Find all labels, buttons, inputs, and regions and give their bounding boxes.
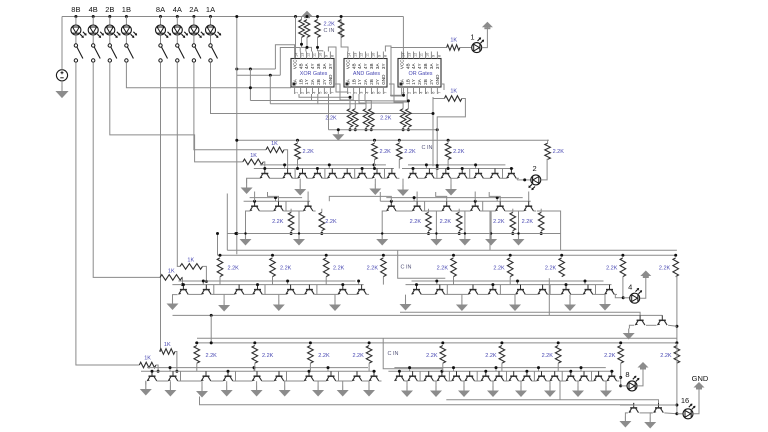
svg-text:4A: 4A: [173, 5, 182, 14]
wire Q4m- emlink2: [434, 380, 438, 382]
wire row2 res0 bot: [290, 231, 292, 234]
resistor 2.2K row4-1: [252, 346, 258, 364]
ground row3 515: [509, 300, 521, 311]
svg-text:1K: 1K: [271, 141, 278, 147]
wire row2 res2 bot: [428, 231, 430, 234]
resistor 2.2K row3-1: [270, 258, 276, 277]
wire q5 mid: [640, 412, 653, 414]
wire Q2- coll last: [313, 210, 316, 212]
svg-text:11: 11: [420, 53, 424, 57]
transistor Q2r-2: [412, 201, 422, 211]
resistor 1K led1: [447, 45, 460, 51]
wire row2 emdrop 382.2: [382, 211, 387, 234]
node row1 res2: [398, 139, 401, 142]
transistor Q1r-7: [507, 169, 517, 179]
wire row1 res2 stub: [398, 140, 400, 143]
wire Q4- coll last: [379, 380, 382, 382]
svg-text:7: 7: [384, 92, 388, 94]
wire Q3- coll riser1: [211, 285, 214, 295]
transistor Q1r-4: [457, 169, 467, 179]
wire row4 gstub 170.4: [169, 381, 171, 385]
svg-text:C IN: C IN: [388, 351, 399, 357]
wire bus 2B: [110, 62, 243, 162]
resistor 2.2K row2-2: [426, 212, 432, 230]
wire ic bottom bus c: [270, 94, 318, 104]
node row2 res3: [458, 232, 461, 235]
node row2 res1: [320, 232, 323, 235]
wire led1 right: [482, 27, 487, 48]
node Q2r-1 base: [390, 200, 393, 203]
wire row4 gstub 256.6: [256, 381, 258, 385]
node pulldown rail end: [436, 128, 439, 131]
wire row3 gstub 515: [514, 295, 516, 300]
svg-text:2B: 2B: [316, 79, 321, 85]
ground row4 521: [515, 386, 527, 397]
wire Q1-8 busjog: [373, 165, 375, 169]
wire Q3-5 busjog: [287, 281, 289, 285]
svg-text:14: 14: [295, 53, 299, 57]
wire Q4- emlink6: [314, 380, 326, 382]
node bundle left: [235, 68, 238, 71]
node Q4m-8 baseA: [495, 366, 498, 369]
wire row4 bottom a: [200, 397, 634, 405]
resistor 2.2K row4-3: [366, 346, 372, 364]
svg-text:3A: 3A: [429, 63, 434, 70]
wire 1B LED feed: [125, 17, 127, 26]
wire Q4m- emlink27: [507, 380, 509, 382]
wire row4 res5 down: [501, 363, 503, 371]
wire 2A LED feed: [193, 17, 195, 26]
wire pullup d2: [341, 37, 348, 51]
wire row3 box top: [227, 249, 677, 251]
transistor Q3-7: [338, 285, 348, 295]
wire row4 gstub 550: [549, 381, 551, 386]
wire Q3r-8 busjog: [584, 281, 586, 285]
ground row4 202: [196, 387, 208, 398]
svg-text:2.2K: 2.2K: [367, 266, 379, 272]
node Q4m-11 baseA: [537, 366, 540, 369]
node pullup b2: [306, 46, 309, 49]
svg-text:1K: 1K: [187, 257, 194, 263]
wire 4A LED feed: [176, 17, 178, 26]
wire Q3r- emlink6: [571, 293, 583, 295]
node bundle b: [269, 74, 272, 77]
wire Q1-5 busjog: [328, 165, 330, 169]
svg-text:1K: 1K: [164, 342, 171, 348]
node row1 res1: [373, 139, 376, 142]
resistor 2.2K row1-1: [372, 143, 378, 159]
node bus e: [407, 99, 410, 102]
resistor 2.2K row4-6: [555, 346, 561, 364]
power arrow top: [302, 11, 313, 18]
wire Q4m- emlink10: [546, 380, 550, 382]
wire Q1r- emlink23: [470, 177, 474, 179]
transistor Q3-8: [357, 285, 367, 295]
wire Q4- coll riser3: [233, 371, 236, 381]
node pullup c2: [316, 46, 319, 49]
svg-text:1Y: 1Y: [304, 79, 309, 85]
wire row4 mid out: [559, 381, 561, 400]
node row2 res5: [540, 232, 543, 235]
resistor 2.2K row3-5: [507, 258, 513, 277]
svg-text:XOR Gates: XOR Gates: [300, 71, 328, 77]
resistor 2.2K row3-0: [217, 258, 223, 277]
wire row2 base8: [528, 192, 530, 202]
wire Q1r- emlink25: [503, 177, 507, 179]
node Q4m-16 base: [610, 370, 613, 373]
wire Q2-2 busjog: [275, 198, 277, 202]
node Q1-8 baseA: [373, 163, 376, 166]
wire xor vcc drop: [295, 17, 297, 59]
wire Q4m- emlink14: [603, 380, 607, 382]
resistor 2.2K pullup c: [315, 20, 321, 38]
node row3 res2: [325, 254, 328, 257]
transistor Q4m-8: [494, 371, 504, 381]
transistor Q3-3: [234, 285, 244, 295]
node Q4m-7 base: [484, 370, 487, 373]
wire Q2r-2 busjog: [413, 198, 415, 202]
wire row4 gstub 493: [492, 381, 494, 386]
svg-text:3: 3: [360, 92, 364, 94]
node row2 g245.5: [244, 232, 246, 234]
transistor Q4m-7: [481, 371, 491, 381]
node pullup d: [340, 15, 343, 18]
wire row2 res5 top: [540, 209, 542, 213]
wire Q4m- base bus A: [394, 367, 605, 369]
resistor 2.2K row3-8: [673, 258, 679, 277]
wire 1A LED feed: [210, 17, 212, 26]
wire Q3r- emlink0: [421, 293, 435, 295]
ground row2 436.4: [430, 235, 442, 246]
wire Q2r-5 busjog: [496, 198, 498, 202]
node row1 res0 base: [296, 167, 299, 170]
LED 4: [630, 288, 642, 303]
resistor 1K row1 upper: [266, 147, 284, 153]
ground row4 436: [430, 386, 442, 397]
wire pullup c1: [317, 17, 319, 20]
switch 2B: [108, 44, 117, 62]
wire Q1r- emlink0: [418, 177, 425, 179]
transistor Q2-2: [274, 201, 284, 211]
ground row3 461.9: [456, 300, 468, 311]
node row3 res1: [271, 254, 274, 257]
svg-text:13: 13: [354, 53, 358, 57]
LED 4A: [172, 25, 188, 38]
wire row3 res7 down: [622, 277, 624, 298]
svg-text:2A: 2A: [189, 5, 198, 14]
svg-text:2.2K: 2.2K: [325, 116, 337, 122]
svg-text:OR Gates: OR Gates: [409, 71, 433, 77]
svg-text:2.2K: 2.2K: [303, 149, 315, 155]
node row2 res2: [427, 232, 430, 235]
wire Q4m-2 busjog: [409, 368, 411, 372]
svg-text:2.2K: 2.2K: [453, 149, 465, 155]
wire Q4m- emlink25: [477, 380, 481, 382]
ground row2 299: [293, 235, 305, 246]
wire Q4m- base bus B: [388, 370, 613, 372]
svg-text:10: 10: [319, 53, 323, 57]
wire or gnd: [441, 84, 444, 90]
wire Q1- emlink2: [307, 177, 312, 179]
svg-text:2.2K: 2.2K: [493, 219, 505, 225]
wire Q1- emlink25: [355, 177, 358, 179]
transistor Q1-4: [313, 169, 323, 179]
ground row2 382.2: [376, 235, 388, 246]
wire Q2- coll riser1: [283, 201, 286, 211]
wire 8B LED feed: [75, 17, 77, 26]
ground row3 335: [329, 300, 341, 311]
wire Q4- emlink4: [262, 380, 274, 382]
node row2 res0: [290, 232, 293, 235]
wire pulldown 0b bot: [354, 127, 356, 130]
svg-text:2.2K: 2.2K: [659, 266, 671, 272]
wire row4 1K lower out: [156, 365, 158, 371]
svg-text:VCC: VCC: [345, 59, 350, 69]
wire pulldown rail: [329, 129, 438, 131]
transistor Q1r-6: [490, 169, 500, 179]
switch 1B: [125, 44, 134, 62]
node pulldown 2a: [402, 128, 405, 131]
node right rail a: [675, 404, 678, 407]
node row4 res5: [500, 341, 503, 344]
wire xor-and top: [328, 47, 347, 94]
wire Q3- emlink25: [317, 293, 338, 295]
LED 8A: [156, 25, 172, 38]
wire Q1- emlink0: [270, 177, 283, 179]
svg-text:1: 1: [348, 92, 352, 94]
resistor 1K row3 upper: [180, 264, 203, 270]
resistor 2.2K pulldown 1a: [363, 109, 369, 128]
ground q5 a: [619, 417, 631, 428]
wire pulldown 1a bot: [365, 127, 367, 130]
transistor Q2r-3: [442, 201, 452, 211]
node 8A rail junction: [159, 15, 162, 18]
wire led1 left: [460, 47, 472, 49]
node Q3r-7 base: [565, 283, 568, 286]
wire row4 gstub 606: [605, 381, 607, 386]
wire Q3- base bus A: [178, 280, 355, 282]
wire Q1r-5 busjog: [475, 165, 477, 169]
wire row4 bottom b: [446, 400, 658, 403]
node pullup c: [316, 15, 319, 18]
wire row4 1K upper out: [175, 352, 177, 372]
transistor Q3r-4: [488, 285, 498, 295]
svg-text:2.2K: 2.2K: [404, 149, 416, 155]
wire pulldown 0a top: [349, 101, 351, 109]
node pulldown 1a: [365, 128, 368, 131]
wire row3 gstub 172.5: [172, 295, 174, 299]
ground row4 256.6: [251, 386, 263, 397]
svg-text:4Y: 4Y: [363, 63, 368, 69]
svg-text:2.2K: 2.2K: [660, 353, 672, 359]
wire row4 em left: [145, 381, 147, 384]
wire ic bottom bus e: [365, 94, 408, 101]
wire 4B LED feed: [92, 17, 94, 26]
svg-text:1: 1: [295, 92, 299, 94]
wire Q4m- coll riser3: [447, 371, 450, 381]
wire row4 right down: [676, 343, 678, 414]
wire 2B LED to switch: [109, 35, 111, 44]
transistor Q1-3: [298, 169, 308, 179]
wire pulldown 0b top: [354, 101, 356, 109]
transistor Q3x-2: [658, 315, 668, 325]
wire Q1r- emlink4: [483, 177, 490, 179]
wire row4 to led8: [621, 385, 627, 387]
node Q1r-1 base: [412, 167, 415, 170]
transistor Q4m-14: [579, 371, 589, 381]
svg-text:12: 12: [360, 53, 364, 57]
node bundle a: [249, 68, 252, 71]
node 4B rail junction: [92, 15, 95, 18]
wire 2B LED feed: [109, 17, 111, 26]
wire OR VCC drop: [402, 17, 404, 59]
wire pullup c2: [318, 37, 323, 51]
wire Q3r- coll riser3: [498, 285, 501, 295]
wire row3 gstub 405.5: [405, 295, 407, 300]
node row2 g518.5: [517, 232, 519, 234]
wire pulldown 1a top: [365, 101, 367, 109]
transistor Q4-9: [352, 371, 362, 381]
svg-text:5: 5: [372, 92, 376, 94]
wire Q4- emlink2: [211, 380, 223, 382]
transistor Q1-2: [283, 169, 293, 179]
resistor 2.2K pullup b: [304, 20, 310, 38]
wire row4 res7 down: [620, 363, 622, 386]
wire and-or top: [385, 46, 401, 96]
wire row1 1K upper out: [284, 150, 288, 169]
wire Q4-2 busjog: [169, 368, 171, 372]
svg-text:10: 10: [372, 53, 376, 57]
wire B bundle b: [237, 74, 280, 76]
wire row2 res0 top: [290, 209, 292, 213]
transistor Q2-3: [303, 201, 313, 211]
wire Q1- coll riser1: [292, 169, 295, 179]
wire row1 last coll: [516, 178, 518, 180]
svg-text:3B: 3B: [369, 63, 374, 69]
transistor Q4-2: [168, 371, 178, 381]
node row23 link: [216, 232, 219, 235]
svg-text:2: 2: [533, 164, 537, 173]
wire row3 out: [615, 295, 623, 298]
node row4 res2: [309, 341, 312, 344]
resistor 2.2K row3-2: [323, 258, 329, 277]
wire Q4- coll riser7: [336, 371, 339, 381]
wire Q2- emlink21: [286, 210, 303, 212]
svg-text:2.2K: 2.2K: [272, 219, 284, 225]
wire Q4m- coll last: [617, 380, 620, 382]
wire Q1- base bus A: [260, 164, 386, 166]
svg-text:2Y: 2Y: [375, 79, 380, 85]
wire led4 right: [640, 276, 646, 298]
svg-text:VCC: VCC: [399, 59, 404, 69]
ground row3 224.1: [218, 301, 230, 312]
wire row3 1K lower out: [181, 277, 184, 284]
svg-text:2.2K: 2.2K: [333, 266, 345, 272]
svg-text:4B: 4B: [298, 63, 303, 69]
wire bus 4B: [93, 62, 160, 277]
transistor Q1-5: [328, 169, 338, 179]
resistor 2.2K row1-3: [445, 143, 451, 159]
wire Q2- emlink0: [259, 210, 273, 212]
switch 8A: [159, 44, 168, 62]
wire Q4m-5 busjog: [453, 368, 455, 372]
transistor Q4m-12: [550, 371, 560, 381]
ground q5 b: [644, 418, 656, 429]
svg-text:16: 16: [681, 396, 689, 405]
node Q4m-5 baseA: [452, 366, 455, 369]
node Q4-2 baseA: [169, 366, 172, 369]
svg-text:2A: 2A: [417, 78, 422, 85]
node row4 res8: [675, 341, 678, 344]
wire row1 em left: [247, 178, 260, 183]
node row2 g299: [298, 232, 300, 234]
wire Q4- emlink23: [236, 380, 253, 382]
wire Q2r- emlink21: [425, 210, 442, 212]
wire Q4- emlink0: [157, 380, 168, 382]
node row1 rail row2: [235, 232, 238, 235]
wire row4 gstub 318.1: [317, 381, 319, 385]
svg-text:4: 4: [628, 283, 632, 292]
wire row4 res1 down: [254, 363, 256, 371]
wire row4 rail: [195, 342, 677, 344]
ground row4 606: [600, 386, 612, 397]
svg-text:4: 4: [366, 92, 370, 94]
IC U3 OR Gates: [398, 52, 442, 95]
ground row4 550: [544, 386, 556, 397]
wire led1 feed: [392, 47, 447, 49]
svg-text:C IN: C IN: [422, 145, 433, 151]
resistor 1K row3 lower: [160, 275, 182, 281]
wire Q3r- base bus B: [406, 284, 612, 286]
wire pulldown 2a bot: [402, 127, 404, 130]
wire Q2r- coll last: [534, 210, 537, 212]
node Q4m-2 baseA: [408, 366, 411, 369]
transistor Q4m-13: [566, 371, 576, 381]
svg-text:2.2K: 2.2K: [545, 266, 557, 272]
wire drop 270: [269, 75, 271, 104]
ground row3 405.5: [400, 300, 412, 311]
wire ic bottom bus b2: [312, 100, 372, 103]
wire Q3- base bus B: [172, 284, 363, 286]
wire pulldown 1b bot: [370, 127, 372, 130]
svg-text:11: 11: [366, 53, 370, 57]
transistor Q3-6: [305, 285, 315, 295]
wire Q3r- emlink21: [447, 293, 468, 295]
node Q2-2 baseA: [274, 196, 277, 199]
wire row2 res3 top: [458, 209, 460, 213]
resistor 2.2K row3-4: [451, 258, 457, 277]
svg-text:5: 5: [319, 92, 323, 94]
wire row1 res1 down: [374, 159, 376, 168]
wire Q3- emlink4: [295, 293, 304, 295]
node row1 drop top: [235, 15, 238, 18]
wire Q3r- emlink27: [596, 293, 605, 295]
wire row2 emdrop 436.4: [436, 211, 441, 234]
wire 8A LED feed: [160, 17, 162, 26]
wire Q2r- coll riser3: [480, 201, 483, 211]
wire row4 gstub 521: [520, 381, 522, 386]
LED 1B: [121, 25, 137, 38]
node row4 led8 b: [619, 384, 622, 387]
wire 4B LED to switch: [92, 35, 94, 44]
wire Q1r- coll riser3: [467, 169, 470, 179]
wire Q4m- emlink23: [449, 380, 451, 382]
switch 2A: [192, 44, 201, 62]
resistor 2.2K row2-3: [456, 212, 462, 230]
transistor Q4m-15: [594, 371, 604, 381]
wire led8 right: [637, 368, 643, 386]
node Q3r-5 baseA: [516, 280, 519, 283]
